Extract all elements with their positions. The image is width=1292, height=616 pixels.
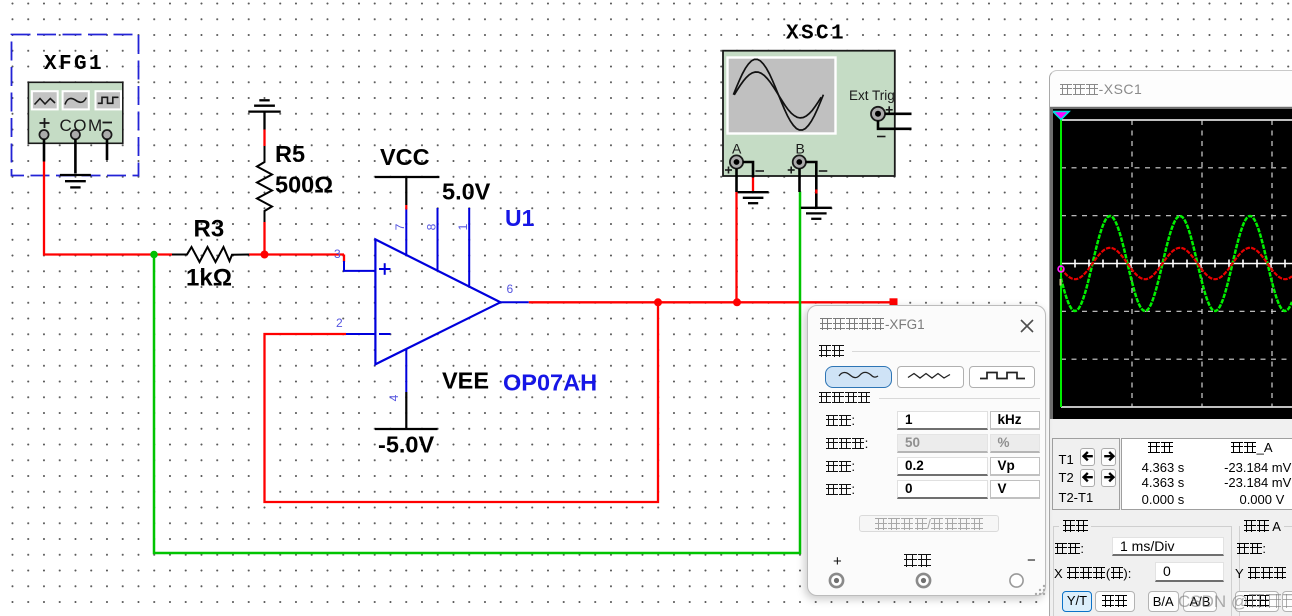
scope x-axis tick marks [1075,260,1292,268]
output minus label [1027,552,1036,569]
common output connector circle [915,572,932,589]
frequency label [825,413,855,428]
svg-text:R5: R5 [275,141,305,167]
scope graticule dashed horizontal line 1 [1061,167,1292,169]
duty cycle unit box % [990,434,1040,453]
scope graticule frame top line [1061,119,1292,121]
op-amp non-inverting input marker [379,263,391,275]
scope x-axis line [1061,263,1292,265]
scope graticule dashed vertical line 2 [1201,120,1203,407]
oscilloscope XSC1 instrument body [723,51,895,176]
VEE power rail bar [375,428,438,430]
channel B plus mark [788,167,795,174]
offset label [825,482,855,497]
junction node: feedback tap [654,298,662,306]
wire: input tap to scope channel B (green) [154,192,800,554]
wire: channel A minus red segment [752,178,754,192]
dialog close button X [1019,318,1035,334]
wire: scope channel A probe (red) [735,192,737,303]
XFG1 sine-wave button [63,91,89,109]
scope graticule dashed horizontal line 3 [1061,310,1292,312]
svg-text:3: 3 [334,247,341,261]
pin 1 stub [468,208,470,287]
channel A group box [1239,526,1292,616]
scope graticule dashed horizontal line 2 [1061,215,1292,217]
ground symbol below channel B [801,208,832,219]
op-amp inverting input marker [379,333,391,335]
op-amp U1 triangle [375,239,500,364]
minus output connector circle [1008,572,1025,589]
XFG1 minus terminal pin [102,130,111,139]
oscilloscope panel window XSC1 [1049,70,1292,616]
svg-text:COM: COM [60,116,104,135]
wire: Ext Trig plus stub [885,113,912,116]
scope cursor handle circle (magenta) [1058,266,1064,272]
timebase scale input [1112,537,1224,556]
XFG1 plus terminal stub wire [43,139,46,161]
svg-text:500Ω: 500Ω [275,172,333,198]
ground symbol under XFG1 COM [60,175,91,187]
wire: XFG1 + output down and right to R3 (red) [44,162,172,255]
add button [1095,591,1135,612]
offset unit box V [990,480,1040,499]
AC coupling button [1235,591,1279,612]
svg-text:VCC: VCC [380,144,430,170]
signal options group label [818,390,871,405]
pin 8 stub [437,208,439,271]
XFG1 minus terminal label [103,122,113,124]
CSDN watermark [1178,592,1292,612]
y position label [1235,566,1287,581]
x position label [1054,566,1131,581]
svg-text:4: 4 [387,394,401,401]
offset input [897,480,988,499]
pin 4 wire (VEE) [405,349,407,392]
scale label [1054,541,1084,556]
timebase group box [1053,526,1233,616]
set rise/fall time button (disabled) [859,515,999,533]
channel B terminal pin [793,155,806,168]
square waveform button [969,366,1035,388]
svg-text:1kΩ: 1kΩ [186,265,232,292]
XFG1 COM terminal stub wire [74,139,77,173]
scope channel B trace (green) [1061,216,1292,311]
scope window title bar [1050,71,1292,107]
svg-text:8: 8 [425,223,439,230]
output plus label [833,553,842,570]
wire: R3 to op-amp + input (red) [249,253,344,255]
T2 left arrow button [1080,469,1095,487]
scope graticule dashed horizontal line 4 [1061,358,1292,360]
svg-text:A: A [732,141,742,157]
x position input [1155,562,1224,582]
XFG1 instrument body [28,82,122,143]
amplitude unit box Vp [990,457,1040,476]
channel B minus mark [819,170,828,172]
pin 6 output stub [500,301,528,303]
A/B button [1183,591,1217,612]
wire: channel B minus to ground [806,162,817,208]
triangle waveform button [897,366,964,388]
wire: channel A plus stub (black) [735,169,738,193]
scope cursor 1 flag marker [1053,112,1069,120]
timebase legend [1059,519,1091,534]
wire: channel B minus red tick [815,190,817,194]
pin 3 connecting wire (red drop) [343,255,345,263]
svg-text:-5.0V: -5.0V [378,432,434,458]
wire: R5 bottom lead to node (red) [263,222,265,255]
waveform group label [818,344,844,359]
sine waveform button (selected) [825,366,892,388]
VCC power rail bar [375,176,439,178]
junction node: R5 to input net (red) [261,251,269,259]
XSC1 icon screen [728,58,836,134]
resistor R3 body [172,247,249,262]
wire: feedback loop output to inverting input (red) [265,302,659,502]
output common label [903,554,931,569]
dialog resize grip [1033,583,1047,597]
Ext Trig plus mark [886,106,893,113]
scope cursor 1 vertical line (green) [1060,118,1062,407]
ground symbol below channel A [738,192,769,203]
scope waveform display [1050,107,1292,419]
XFG1 minus terminal stub wire [106,139,109,160]
dialog title [819,317,925,332]
scope graticule dashed vertical line 3 [1271,120,1273,407]
scope cursor readout left box [1052,438,1120,510]
channel A plus mark [725,167,732,174]
svg-text:XFG1: XFG1 [44,53,104,76]
wire: Ext Trig minus stub [878,121,912,129]
channel A minus mark [756,170,765,172]
scope graticule dashed vertical line 1 [1131,120,1133,407]
T2 right arrow button [1101,469,1116,487]
svg-text:VEE: VEE [442,368,489,394]
frequency input [897,411,988,430]
svg-text:6: 6 [507,282,514,296]
duty cycle label [825,436,868,451]
svg-text:Ext Trig: Ext Trig [849,88,895,103]
channel A terminal pin [730,155,743,168]
ground symbol above R5 (inverted) [248,100,280,111]
svg-text:1: 1 [456,223,470,230]
wire: channel B plus stub (black) [798,169,801,193]
svg-text:B: B [796,141,805,157]
amplitude input [897,457,988,476]
amplitude label [825,459,855,474]
Y/T button (selected) [1062,591,1092,612]
wire: channel A minus to ground [743,162,753,178]
pin 3 stub [344,261,375,271]
resistor R5 body [257,146,272,222]
scope cursor yellow tick [1060,279,1062,286]
wire: ground to R5 top (black) [263,112,265,130]
scope channel A trace (red) [1061,248,1292,279]
pin 2 stub [345,333,375,335]
svg-text:5.0V: 5.0V [442,179,491,205]
XFG1 square-wave button [96,91,122,109]
XFG1 plus terminal label [40,118,50,128]
node: output net end square [890,298,898,306]
XFG1 triangle-wave button [32,91,58,109]
svg-text:R3: R3 [194,216,225,243]
junction node: green wire tap on input net [150,251,158,259]
svg-text:7: 7 [393,223,407,230]
Ext Trig minus mark [877,136,886,138]
XSC1 screen sine curve inner [734,72,821,118]
wire: red segment on R5 top lead [263,130,265,147]
svg-text:2: 2 [336,316,343,330]
XFG1 plus terminal pin [39,130,48,139]
T1 right arrow button [1101,448,1116,466]
channel A scale label [1236,541,1266,556]
function generator dialog XFG1 [807,305,1046,596]
plus output connector circle [828,572,845,589]
XFG1 COM terminal pin [71,130,80,139]
svg-text:XSC1: XSC1 [786,23,846,46]
duty cycle input (disabled) [897,434,988,453]
Ext Trig terminal pin [871,107,885,121]
svg-text:OP07AH: OP07AH [503,370,597,396]
T1 left arrow button [1080,448,1095,466]
partial button at right edge [1282,591,1292,612]
wire: op-amp output net (red) [529,301,891,303]
svg-text:U1: U1 [505,205,535,231]
scope graticule frame bottom line [1061,406,1292,408]
function generator XFG1 selection dashed box [12,35,139,176]
scope readout values box [1121,438,1292,510]
B/A button [1148,591,1179,612]
junction node: scope channel A tap [733,298,741,306]
frequency unit box kHz [990,411,1040,430]
pin 7 wire (VCC) [405,177,407,205]
channel A legend [1240,519,1284,534]
XSC1 screen sine curve outer [733,59,823,130]
